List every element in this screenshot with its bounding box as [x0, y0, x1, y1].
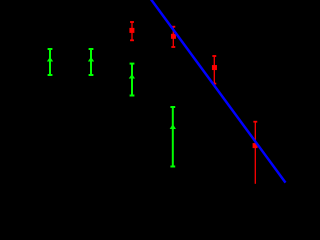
red data point 1 error bar [130, 22, 134, 40]
red data point 2 square marker [171, 34, 176, 39]
green data point 4 error bar [170, 107, 175, 167]
blue fit line [150, 0, 286, 183]
green data point 4 triangle marker [170, 124, 176, 129]
red data point 3 square marker [212, 65, 217, 70]
green data point 2 triangle marker [88, 57, 94, 62]
red data point 1 square marker [129, 28, 134, 33]
green data point 1 error bar [48, 49, 53, 75]
green data point 3 error bar [130, 64, 135, 96]
green data point 1 triangle marker [47, 57, 53, 62]
red data point 4 square marker [253, 143, 258, 148]
green data point 3 triangle marker [129, 74, 135, 79]
red data point 2 error bar [171, 27, 175, 47]
red data point 4 error bar [253, 122, 257, 184]
green data point 2 error bar [89, 49, 94, 75]
red data point 3 error bar [212, 56, 216, 84]
